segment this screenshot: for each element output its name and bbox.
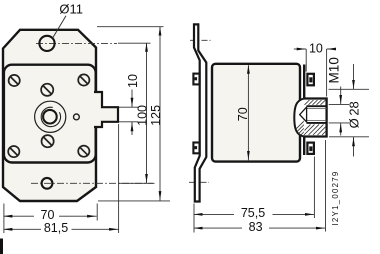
dim 75,5 line right <box>273 213 315 215</box>
central hub outer circle <box>35 101 66 132</box>
terminal tab right side <box>94 92 118 127</box>
thick inner ring <box>43 110 57 124</box>
M10 arrows <box>340 87 342 105</box>
ext 83 right (stud end) <box>325 140 327 232</box>
screw top-right <box>78 74 89 85</box>
frame corner mark bottom-left <box>0 239 3 254</box>
bracket clip 1 <box>193 74 199 85</box>
svg-text:M10: M10 <box>327 57 342 83</box>
bottom hole <box>42 178 53 189</box>
ext plate top <box>97 26 164 28</box>
svg-text:Ø11: Ø11 <box>59 2 83 17</box>
dim 75,5 line left <box>194 213 234 215</box>
centerline top hole <box>36 42 117 44</box>
svg-text:Ø 28: Ø 28 <box>346 101 361 128</box>
ext bottom-left plate <box>3 204 5 234</box>
svg-text:I2Y1_00279: I2Y1_00279 <box>331 170 340 225</box>
M10 ext lines <box>329 103 349 105</box>
ext 75,5 right (tab tip) <box>313 157 315 219</box>
ext 81.5 right (tab tip) <box>118 124 120 233</box>
ext tab top <box>119 106 138 108</box>
ext hole center <box>118 42 151 44</box>
dim 10 (tab) lower line w arrow up <box>131 122 133 135</box>
ext plate bottom right <box>98 200 170 202</box>
screw mid-top <box>41 84 53 96</box>
hatch top band <box>305 100 326 105</box>
centerline top (bracket) <box>190 39 211 41</box>
svg-text:10: 10 <box>309 42 323 56</box>
svg-text:10: 10 <box>126 74 140 88</box>
end contact plate bar (upper part) <box>303 65 305 99</box>
thread arc (3/4 circle) <box>41 107 60 126</box>
stud hole band edges <box>307 106 327 123</box>
ext tab bottom <box>119 121 138 123</box>
ext line 10-dim right <box>326 49 328 97</box>
top terminal tab (right of body) <box>307 74 314 86</box>
bracket clip 2 <box>193 143 199 154</box>
dim 100 line <box>146 43 148 183</box>
svg-text:81,5: 81,5 <box>44 221 68 235</box>
svg-text:70: 70 <box>41 208 55 222</box>
dome section hatch <box>288 97 342 137</box>
centerline bottom hole <box>31 182 153 184</box>
hatch bottom band <box>304 124 326 135</box>
dim 10 left arrow <box>294 48 306 50</box>
bottom terminal tab <box>307 143 314 154</box>
cone tip <box>300 107 307 122</box>
screw bottom-left <box>8 146 19 157</box>
centerline bottom (bracket) <box>189 181 209 183</box>
svg-text:70: 70 <box>236 107 250 121</box>
svg-text:125: 125 <box>149 105 163 126</box>
ext 70 right <box>96 204 98 221</box>
dim 70 line (vertical, inside body) <box>247 65 249 160</box>
dim 10 (tab) upper line w arrow down <box>131 90 133 108</box>
ext 100 bottom (solid over centerline) <box>118 182 155 184</box>
screw top-left <box>9 75 20 86</box>
dome cap (left of stud, over body edge) <box>294 99 303 137</box>
svg-text:75,5: 75,5 <box>241 206 265 220</box>
dim 70 line right part <box>59 215 97 217</box>
ext line 10-dim left <box>305 49 307 72</box>
screw bottom-right <box>78 146 89 157</box>
dim 81,5 line right part <box>72 228 119 230</box>
dim 83 line left <box>194 227 242 229</box>
thread thin lines <box>307 109 327 121</box>
body (side) <box>212 64 300 162</box>
Ø28 arrows <box>353 64 355 89</box>
small hole right of hub <box>74 114 80 120</box>
svg-text:83: 83 <box>249 220 263 234</box>
dim 83 line right <box>269 227 326 229</box>
stud block (3 sides, left closed by dome) <box>304 99 327 137</box>
leader line Ø11 <box>53 16 67 39</box>
mounting plate (octagon) <box>3 30 96 201</box>
dim 10 right arrow <box>327 48 336 50</box>
main body (rounded square) <box>4 65 96 163</box>
top hole Ø11 <box>39 36 54 51</box>
mounting bracket (Z-strip) <box>194 24 206 201</box>
svg-text:100: 100 <box>136 105 150 126</box>
screw mid-bottom <box>42 135 54 147</box>
dim 70 line left part <box>4 215 34 217</box>
end contact plate bar (lower part) <box>303 137 305 155</box>
dim 81,5 line left part <box>4 228 41 230</box>
Ø28 ext lines <box>329 88 370 90</box>
dim 125 line <box>159 27 161 201</box>
ext 75,5 left (bracket) <box>193 204 195 233</box>
